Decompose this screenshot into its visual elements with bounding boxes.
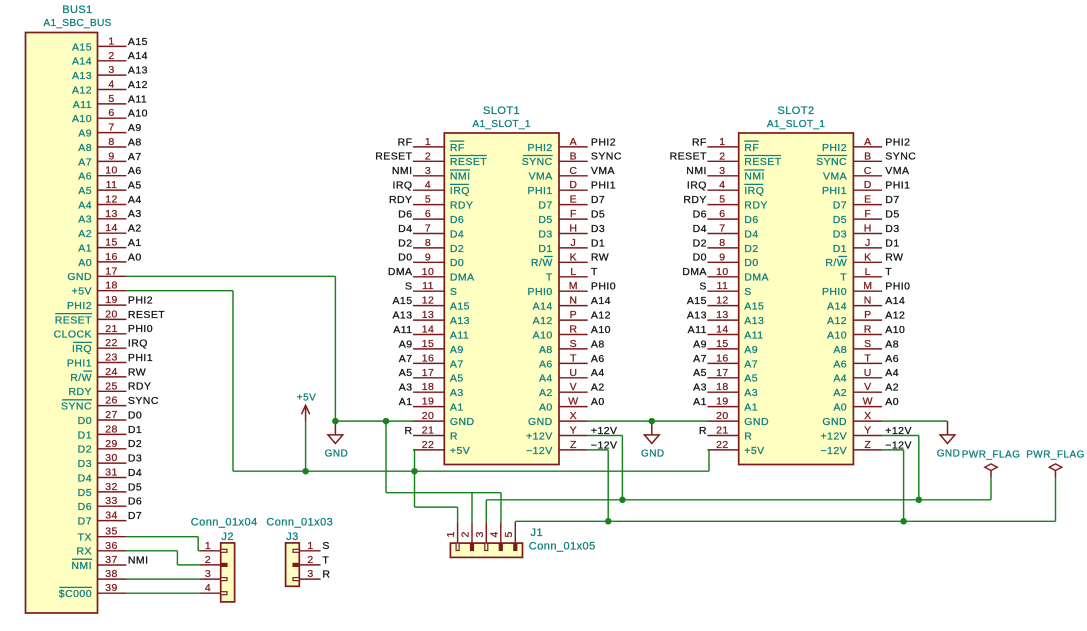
SLOT1 pin 10 (DMA) — [388, 266, 475, 284]
wire +5V: power symbol stem down to rail — [305, 422, 307, 471]
svg-text:$C000: $C000 — [59, 588, 92, 600]
SLOT1 pin 15 (A9) — [399, 338, 464, 356]
svg-text:RDY: RDY — [683, 194, 707, 206]
wire GND: SLOT2 pin X to GND symbol — [882, 420, 947, 422]
SLOT1 pin K (R/W) — [531, 251, 609, 269]
svg-text:VMA: VMA — [529, 171, 553, 183]
svg-text:GND: GND — [450, 416, 475, 428]
svg-text:A6: A6 — [78, 171, 92, 183]
svg-text:D6: D6 — [744, 214, 758, 226]
svg-text:7: 7 — [108, 122, 114, 134]
svg-text:8: 8 — [108, 136, 114, 148]
svg-text:PHI0: PHI0 — [528, 286, 553, 298]
svg-text:R/W: R/W — [70, 372, 92, 384]
svg-text:D3: D3 — [591, 223, 605, 235]
svg-text:J2: J2 — [221, 531, 234, 543]
svg-text:9: 9 — [425, 251, 431, 263]
svg-text:Y: Y — [570, 425, 577, 437]
svg-text:1: 1 — [205, 540, 211, 552]
svg-text:20: 20 — [716, 410, 729, 422]
svg-text:26: 26 — [105, 395, 118, 407]
svg-text:DMA: DMA — [744, 272, 769, 284]
svg-text:A11: A11 — [73, 99, 92, 111]
BUS1 pin 2 (A14) — [72, 50, 148, 68]
svg-text:A15: A15 — [687, 295, 707, 307]
svg-text:A4: A4 — [128, 194, 142, 206]
SLOT2 pin F (D5) — [833, 208, 900, 226]
svg-text:A3: A3 — [450, 387, 464, 399]
connector BUS1 (A1_SBC_BUS) — [26, 4, 112, 613]
svg-text:L: L — [570, 266, 576, 278]
BUS1 pin 10 (A6) — [78, 165, 141, 183]
SLOT2 pin 5 (RDY) — [683, 194, 767, 212]
svg-text:A12: A12 — [827, 315, 847, 327]
svg-text:A13: A13 — [392, 310, 412, 322]
SLOT2 pin 15 (A9) — [693, 338, 758, 356]
svg-text:RF: RF — [692, 136, 707, 148]
connector J2 (Conn_01x04) — [191, 517, 258, 602]
svg-text:D0: D0 — [398, 252, 412, 264]
svg-text:A7: A7 — [450, 358, 464, 370]
SLOT1 pin Y (+12V) — [526, 425, 617, 443]
svg-text:5: 5 — [425, 194, 431, 206]
svg-text:A14: A14 — [128, 50, 148, 62]
svg-text:SYNC: SYNC — [591, 151, 622, 163]
svg-text:PHI1: PHI1 — [528, 185, 553, 197]
J3 pin 3 / net R — [293, 568, 330, 581]
svg-text:D6: D6 — [128, 496, 142, 508]
svg-text:NMI: NMI — [71, 560, 92, 572]
svg-text:A0: A0 — [128, 251, 142, 263]
svg-text:W: W — [863, 396, 873, 408]
SLOT2 pin T (A6) — [833, 352, 899, 370]
svg-text:19: 19 — [105, 294, 118, 306]
svg-text:PHI1: PHI1 — [128, 352, 153, 364]
SLOT1 pin S (A8) — [539, 338, 605, 356]
J1 pin 5 — [503, 523, 517, 551]
svg-text:D5: D5 — [885, 209, 899, 221]
BUS1 pin 27 (D0) — [78, 409, 143, 427]
svg-text:19: 19 — [716, 396, 729, 408]
svg-text:A15: A15 — [450, 301, 470, 313]
junction -12V at SLOT2 drop — [900, 518, 907, 525]
wire GND: vertical down to GND rail — [334, 276, 336, 421]
svg-text:D0: D0 — [693, 252, 707, 264]
svg-text:12: 12 — [422, 295, 435, 307]
svg-text:K: K — [864, 251, 871, 263]
svg-text:A9: A9 — [693, 338, 707, 350]
svg-text:D6: D6 — [450, 214, 464, 226]
svg-text:33: 33 — [105, 495, 118, 507]
wire +12V: up to PWR_FLAG — [990, 477, 992, 500]
wire GND: SLOT1 pin X to GND symbol — [588, 420, 652, 422]
svg-text:A15: A15 — [744, 301, 764, 313]
svg-text:A2: A2 — [591, 382, 605, 394]
wire GND: into SLOT1 pin 20 — [386, 420, 413, 422]
SLOT1 pin 17 (A5) — [399, 367, 464, 385]
svg-text:8: 8 — [425, 237, 431, 249]
svg-text:23: 23 — [105, 352, 118, 364]
svg-text:R: R — [864, 324, 872, 336]
svg-text:−12V: −12V — [526, 445, 553, 457]
junction +5V branch SLOT1/J1 — [411, 468, 418, 475]
svg-text:V: V — [864, 381, 871, 393]
svg-text:15: 15 — [716, 338, 729, 350]
svg-text:A10: A10 — [128, 108, 148, 120]
svg-text:PHI2: PHI2 — [885, 136, 910, 148]
J1 pin 1 — [445, 523, 459, 551]
wire TX: drop to J2 pin 1 — [197, 537, 199, 551]
SLOT2 pin C (VMA) — [823, 165, 909, 183]
svg-text:PHI1: PHI1 — [885, 180, 910, 192]
J2 pin 4 — [199, 582, 227, 595]
SLOT2 pin M (PHI0) — [822, 280, 911, 298]
svg-text:S: S — [744, 286, 751, 298]
svg-text:D7: D7 — [78, 516, 92, 528]
svg-text:18: 18 — [716, 381, 729, 393]
wire +12V: SLOT2 drop to rail — [918, 436, 920, 500]
svg-text:A0: A0 — [885, 396, 899, 408]
svg-text:K: K — [570, 251, 577, 263]
svg-text:A: A — [570, 136, 577, 148]
svg-text:SLOT1: SLOT1 — [483, 105, 520, 117]
svg-text:A14: A14 — [72, 56, 92, 68]
svg-text:J: J — [865, 237, 871, 249]
SLOT2 pin A (PHI2) — [822, 136, 911, 154]
wire GND: drop toward J1 — [385, 421, 387, 493]
J2 pin 2 — [199, 554, 227, 567]
svg-text:30: 30 — [105, 452, 118, 464]
svg-text:A11: A11 — [450, 329, 469, 341]
wire +12V: drop to +12V rail — [621, 436, 623, 500]
SLOT1 pin V (A2) — [539, 381, 605, 399]
svg-text:P: P — [570, 309, 577, 321]
SLOT2 pin 16 (A7) — [693, 352, 758, 370]
svg-text:29: 29 — [105, 438, 118, 450]
svg-text:3: 3 — [307, 568, 313, 580]
SLOT1 pin 8 (D2) — [398, 237, 464, 255]
BUS1 pin 39 ($C000) — [59, 582, 127, 600]
SLOT1 pin M (PHI0) — [528, 280, 617, 298]
svg-text:D3: D3 — [128, 453, 142, 465]
svg-text:X: X — [864, 410, 871, 422]
svg-text:A13: A13 — [128, 65, 148, 77]
svg-text:9: 9 — [108, 150, 114, 162]
SLOT1 pin N (A14) — [533, 295, 611, 313]
svg-text:D7: D7 — [591, 194, 605, 206]
svg-text:IRQ: IRQ — [744, 185, 764, 197]
BUS1 pin 21 (CLOCK) — [54, 323, 153, 341]
BUS1 pin 16 (A0) — [78, 251, 141, 269]
svg-text:A12: A12 — [533, 315, 553, 327]
BUS1 pin 15 (A1) — [78, 237, 141, 255]
wire RX: BUS1 pin36 horizontal — [126, 550, 177, 552]
SLOT1 pin 18 (A3) — [399, 381, 464, 399]
svg-text:GND: GND — [822, 416, 847, 428]
SLOT1 pin 14 (A11) — [393, 324, 469, 342]
svg-text:A0: A0 — [78, 257, 92, 269]
svg-text:NMI: NMI — [744, 171, 765, 183]
svg-text:16: 16 — [716, 352, 729, 364]
svg-text:W: W — [568, 396, 578, 408]
wire +12V: SLOT2 pin Y horizontal — [882, 435, 919, 437]
wire RX: to J2 pin 2 — [177, 564, 199, 566]
svg-text:A3: A3 — [399, 382, 413, 394]
svg-text:12: 12 — [716, 295, 729, 307]
svg-text:8: 8 — [719, 237, 725, 249]
svg-text:PWR_FLAG: PWR_FLAG — [1026, 449, 1085, 460]
svg-text:T: T — [885, 266, 892, 278]
svg-text:A6: A6 — [885, 353, 899, 365]
SLOT2 pin L (T) — [840, 266, 892, 284]
SLOT1 pin 13 (A13) — [392, 309, 469, 327]
svg-text:D3: D3 — [833, 228, 847, 240]
svg-text:+5V: +5V — [297, 392, 316, 403]
wire -12V: stub to J1 pin 5 — [514, 521, 516, 522]
svg-text:A8: A8 — [833, 344, 847, 356]
SLOT2 pin 4 (IRQ) — [687, 179, 764, 197]
svg-text:38: 38 — [105, 568, 118, 580]
SLOT1 pin 5 (RDY) — [389, 194, 473, 212]
svg-text:28: 28 — [105, 423, 118, 435]
wire GND: to junction — [335, 420, 386, 422]
svg-text:R: R — [404, 425, 412, 437]
svg-text:A10: A10 — [885, 324, 905, 336]
SLOT1 pin R (A10) — [533, 324, 611, 342]
svg-text:13: 13 — [105, 208, 118, 220]
SLOT1 pin 4 (IRQ) — [392, 179, 469, 197]
svg-text:3: 3 — [719, 165, 725, 177]
SLOT2 pin E (D7) — [833, 194, 900, 212]
SLOT1 pin L (T) — [546, 266, 598, 284]
SLOT1 pin J (D1) — [538, 237, 605, 255]
BUS1 pin 29 (D2) — [78, 438, 143, 456]
svg-text:D5: D5 — [538, 214, 552, 226]
svg-text:7: 7 — [425, 223, 431, 235]
svg-text:3: 3 — [205, 568, 211, 580]
svg-text:A11: A11 — [393, 324, 412, 336]
svg-text:PHI1: PHI1 — [591, 180, 616, 192]
svg-text:RDY: RDY — [68, 386, 92, 398]
svg-text:34: 34 — [105, 510, 118, 522]
svg-text:RF: RF — [450, 142, 465, 154]
BUS1 pin 20 (RESET) — [55, 308, 166, 326]
BUS1 pin 3 (A13) — [72, 64, 148, 82]
SLOT2 pin X (GND) — [822, 410, 882, 428]
svg-text:B: B — [570, 150, 577, 162]
svg-text:A1: A1 — [399, 396, 413, 408]
SLOT2 pin Y (+12V) — [820, 425, 911, 443]
BUS1 pin 17 (GND) — [67, 265, 126, 283]
svg-text:IRQ: IRQ — [450, 185, 470, 197]
svg-text:PHI2: PHI2 — [591, 136, 616, 148]
SLOT2 pin S (A8) — [833, 338, 899, 356]
SLOT2 pin J (D1) — [833, 237, 900, 255]
svg-text:D6: D6 — [398, 209, 412, 221]
BUS1 pin 34 (D7) — [78, 510, 143, 528]
svg-text:35: 35 — [105, 526, 118, 538]
svg-text:+5V: +5V — [744, 445, 764, 457]
svg-text:22: 22 — [105, 337, 118, 349]
wire net BUS1 pin38 to J2 pin 3 — [126, 578, 199, 580]
wire +5V: down to J1 pin 1 — [457, 507, 459, 522]
SLOT1 pin 19 (A1) — [399, 396, 464, 414]
svg-text:E: E — [864, 194, 871, 206]
svg-text:RDY: RDY — [744, 200, 768, 212]
svg-text:E: E — [570, 194, 577, 206]
svg-text:+12V: +12V — [820, 430, 847, 442]
svg-text:GND: GND — [937, 448, 961, 459]
svg-text:VMA: VMA — [885, 165, 909, 177]
BUS1 pin 23 (PHI1) — [67, 352, 153, 370]
junction +12V at SLOT1 drop — [619, 497, 626, 504]
svg-text:GND: GND — [67, 271, 92, 283]
svg-text:DMA: DMA — [682, 266, 707, 278]
SLOT2 pin 6 (D6) — [693, 208, 759, 226]
svg-text:A0: A0 — [591, 396, 605, 408]
svg-text:RF: RF — [398, 136, 413, 148]
svg-text:A2: A2 — [78, 228, 92, 240]
svg-text:PHI0: PHI0 — [128, 323, 153, 335]
SLOT2 pin 7 (D4) — [693, 223, 759, 241]
svg-text:D1: D1 — [538, 243, 552, 255]
svg-text:S: S — [405, 281, 412, 293]
svg-text:1: 1 — [425, 136, 431, 148]
svg-text:4: 4 — [425, 179, 431, 191]
svg-text:3: 3 — [108, 64, 114, 76]
svg-text:F: F — [570, 208, 577, 220]
svg-text:25: 25 — [105, 380, 118, 392]
svg-text:D0: D0 — [78, 415, 92, 427]
svg-text:Conn_01x05: Conn_01x05 — [529, 540, 596, 552]
svg-text:5: 5 — [719, 194, 725, 206]
junction -12V at SLOT1 drop — [605, 518, 612, 525]
svg-text:A7: A7 — [693, 353, 707, 365]
wire +5V: BUS1 pin18 horizontal — [126, 290, 233, 292]
SLOT1 pin 6 (D6) — [398, 208, 464, 226]
svg-text:A6: A6 — [539, 358, 553, 370]
svg-text:1: 1 — [719, 136, 725, 148]
SLOT2 pin W (A0) — [833, 396, 899, 414]
svg-text:A11: A11 — [128, 93, 147, 105]
svg-text:PHI2: PHI2 — [528, 142, 553, 154]
svg-text:D2: D2 — [744, 243, 758, 255]
svg-text:S: S — [450, 286, 457, 298]
svg-text:31: 31 — [105, 467, 118, 479]
svg-text:11: 11 — [106, 179, 118, 191]
J2 pin 1 — [199, 540, 227, 553]
svg-text:10: 10 — [716, 266, 729, 278]
svg-text:SLOT2: SLOT2 — [777, 105, 814, 117]
svg-text:A4: A4 — [539, 373, 553, 385]
svg-text:A3: A3 — [78, 214, 92, 226]
svg-text:SYNC: SYNC — [885, 151, 916, 163]
svg-text:RESET: RESET — [55, 314, 92, 326]
svg-text:D1: D1 — [833, 243, 847, 255]
BUS1 pin 13 (A3) — [78, 208, 141, 226]
svg-text:S: S — [570, 338, 577, 350]
svg-text:A14: A14 — [533, 301, 553, 313]
svg-text:A12: A12 — [128, 79, 148, 91]
svg-text:A8: A8 — [539, 344, 553, 356]
svg-text:D0: D0 — [128, 409, 142, 421]
wire -12V: SLOT1 pin Z horizontal — [588, 449, 609, 451]
SLOT1 pin 22 (+5V) — [413, 439, 470, 457]
svg-text:A5: A5 — [128, 180, 142, 192]
svg-text:IRQ: IRQ — [392, 180, 412, 192]
wire +5V: up to SLOT1 pin 22 — [414, 450, 416, 471]
svg-text:VMA: VMA — [823, 171, 847, 183]
wire GND: BUS1 pin17 horizontal — [126, 275, 335, 277]
wire TX: stub to J2 pin 1 — [198, 550, 199, 552]
svg-text:D5: D5 — [128, 481, 142, 493]
BUS1 pin 18 (+5V) — [72, 280, 127, 298]
wire +12V: horizontal rail — [486, 499, 991, 501]
BUS1 pin 25 (RDY) — [68, 380, 151, 398]
svg-text:A9: A9 — [128, 122, 142, 134]
wire -12V: up to PWR_FLAG — [1055, 477, 1057, 521]
svg-text:10: 10 — [422, 266, 435, 278]
BUS1 pin 5 (A11) — [73, 93, 147, 111]
svg-text:VMA: VMA — [591, 165, 615, 177]
svg-text:2: 2 — [719, 150, 725, 162]
junction GND at left ground symbol — [332, 418, 339, 425]
connector SLOT2 (A1_SLOT_1) — [739, 105, 854, 464]
SLOT1 pin 1 (RF) — [398, 136, 465, 154]
svg-text:4: 4 — [108, 79, 114, 91]
svg-text:R: R — [450, 430, 458, 442]
svg-text:D0: D0 — [450, 257, 464, 269]
svg-text:D4: D4 — [744, 228, 758, 240]
svg-text:A5: A5 — [399, 367, 413, 379]
BUS1 pin 26 (SYNC) — [61, 395, 159, 413]
power symbol +5V — [297, 392, 316, 421]
svg-text:D2: D2 — [693, 237, 707, 249]
svg-text:A4: A4 — [885, 367, 899, 379]
junction +12V at SLOT2 drop — [916, 497, 923, 504]
J1 pin 3 — [474, 523, 488, 551]
SLOT2 pin 14 (A11) — [688, 324, 764, 342]
svg-text:19: 19 — [422, 396, 435, 408]
svg-text:NMI: NMI — [686, 165, 707, 177]
svg-text:D6: D6 — [78, 501, 92, 513]
wire GND: down to J1 pin 4 — [500, 493, 502, 523]
svg-text:C: C — [569, 165, 577, 177]
svg-text:2: 2 — [307, 554, 313, 566]
svg-text:12: 12 — [105, 194, 118, 206]
BUS1 pin 33 (D6) — [78, 495, 143, 513]
svg-text:PHI1: PHI1 — [67, 357, 92, 369]
svg-text:Z: Z — [570, 439, 577, 451]
junction GND branch to J1 — [383, 418, 390, 425]
svg-text:A15: A15 — [72, 41, 92, 53]
svg-text:D7: D7 — [885, 194, 899, 206]
svg-text:A14: A14 — [827, 301, 847, 313]
SLOT2 pin Z (−12V) — [820, 439, 911, 457]
svg-text:DMA: DMA — [450, 272, 475, 284]
svg-text:14: 14 — [105, 222, 118, 234]
SLOT2 pin 8 (D2) — [693, 237, 759, 255]
SLOT2 pin 19 (A1) — [693, 396, 758, 414]
svg-text:13: 13 — [716, 309, 729, 321]
svg-text:A6: A6 — [591, 353, 605, 365]
svg-text:A13: A13 — [72, 70, 92, 82]
svg-text:A15: A15 — [128, 36, 148, 48]
svg-text:RF: RF — [744, 142, 759, 154]
svg-text:6: 6 — [719, 208, 725, 220]
svg-text:F: F — [864, 208, 871, 220]
svg-text:A1_SBC_BUS: A1_SBC_BUS — [43, 18, 111, 29]
